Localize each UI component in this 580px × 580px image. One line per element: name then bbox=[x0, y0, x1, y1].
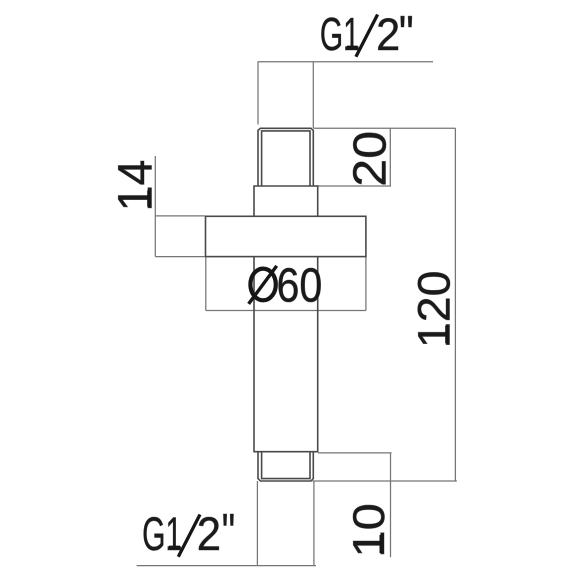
svg-text:20: 20 bbox=[343, 131, 395, 187]
svg-text:": " bbox=[222, 503, 235, 562]
serif of digit 1 top label bbox=[347, 46, 358, 49]
svg-text:14: 14 bbox=[110, 160, 163, 212]
svg-text:2: 2 bbox=[376, 9, 400, 60]
dimension line 14 bbox=[154, 156, 156, 257]
serif of digit 1 bottom label bbox=[169, 546, 180, 549]
top thread outer profile bbox=[258, 128, 313, 186]
bottom thread outer profile bbox=[258, 452, 313, 481]
extension line bottom-right bbox=[313, 481, 315, 566]
dimension line bottom G1/2 bbox=[137, 565, 316, 567]
tube body bbox=[254, 257, 318, 452]
svg-text:2: 2 bbox=[197, 508, 221, 561]
dimension line 20 bbox=[389, 128, 391, 186]
extension line diameter left bbox=[205, 257, 207, 311]
extension line diameter right bbox=[365, 257, 367, 311]
upper collar bbox=[254, 186, 318, 216]
svg-text:G1: G1 bbox=[142, 507, 182, 560]
dimension line top G1/2 bbox=[258, 61, 434, 63]
extension line thread bottom right bbox=[313, 185, 391, 187]
dimension line 10 bbox=[390, 453, 392, 557]
top thread root lines bbox=[262, 131, 310, 186]
slash of top G1/2 bbox=[356, 15, 378, 57]
extension line bottom-left bbox=[256, 481, 258, 566]
dimension line diameter 60 bbox=[206, 310, 366, 312]
extension line thread top to 120 dim bbox=[313, 127, 455, 129]
extension line top-right bbox=[312, 62, 314, 128]
svg-text:60: 60 bbox=[277, 258, 323, 312]
svg-text:G1: G1 bbox=[320, 8, 360, 60]
extension line bottom 120 bbox=[312, 480, 457, 482]
serif of digit 1 in 10 bbox=[380, 535, 383, 553]
diameter symbol slash bbox=[249, 266, 277, 304]
extension line tube bottom right bbox=[318, 452, 392, 454]
flange bbox=[206, 216, 366, 256]
serif of digit 1 in 14 bbox=[147, 191, 150, 207]
extension line top-left bbox=[257, 62, 259, 125]
svg-text:10: 10 bbox=[345, 503, 394, 557]
extension line flange top left bbox=[155, 215, 205, 217]
diameter symbol ellipse bbox=[250, 269, 275, 301]
extension line flange bottom left bbox=[155, 256, 205, 258]
dimension line 120 bbox=[454, 128, 456, 481]
svg-text:120: 120 bbox=[409, 271, 460, 349]
svg-text:": " bbox=[399, 6, 414, 62]
serif of digit 1 in 120 bbox=[445, 326, 448, 344]
bottom thread root lines bbox=[262, 452, 310, 479]
slash of bottom G1/2 bbox=[178, 515, 200, 557]
